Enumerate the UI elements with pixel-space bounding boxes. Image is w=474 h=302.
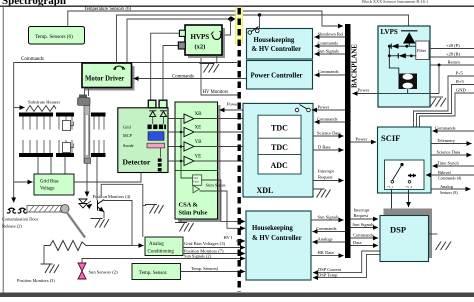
backplane bar bbox=[345, 24, 351, 258]
svg-text:Commands: Commands bbox=[316, 226, 337, 231]
CSA & stim pulse shadow bbox=[178, 105, 221, 222]
svg-text:Shutdown Rel: Shutdown Rel bbox=[318, 32, 344, 37]
svg-text:Power: Power bbox=[318, 105, 330, 110]
svg-text:Sun Signals: Sun Signals bbox=[353, 222, 375, 227]
svg-text:Request: Request bbox=[318, 175, 333, 180]
HK switch circles bbox=[248, 31, 252, 35]
DSP shadow bbox=[384, 209, 433, 259]
svg-text:R+5: R+5 bbox=[456, 79, 465, 84]
protection diode 1 bbox=[149, 111, 156, 117]
position monitor potentiometer zigzag bbox=[44, 241, 86, 251]
op-amp YB bbox=[184, 142, 194, 151]
svg-text:Request: Request bbox=[354, 213, 369, 218]
svg-text:Sun Sensors (2): Sun Sensors (2) bbox=[89, 270, 119, 275]
protection diode 2 bbox=[160, 111, 167, 117]
power controller box bbox=[247, 61, 313, 90]
svg-text:Grid Bias: Grid Bias bbox=[40, 180, 59, 185]
optical bench top bars bbox=[19, 113, 53, 117]
wire temp sensors to HK bbox=[181, 271, 246, 273]
housekeeping HV controller bottom box bbox=[246, 211, 311, 280]
wire sun signals (HK bottom to backplane) bbox=[311, 219, 344, 221]
wire arrow: to grid bias voltage box bbox=[14, 181, 33, 183]
wire: commands bus left bbox=[14, 63, 237, 200]
svg-text:Temp. Sensor.: Temp. Sensor. bbox=[139, 271, 167, 276]
TDC ADC white boxes bbox=[258, 115, 301, 174]
XDL box bbox=[243, 103, 313, 197]
svg-text:Commands: Commands bbox=[21, 57, 44, 62]
svg-text:TDC: TDC bbox=[271, 124, 288, 133]
svg-text:Release (2): Release (2) bbox=[2, 224, 22, 229]
wire: Temperature Sensors (6) from temp box to backplane arrow bbox=[68, 11, 343, 27]
svg-text:Stim Status: Stim Status bbox=[206, 183, 226, 188]
anode wire to feedthrough pins bbox=[160, 148, 162, 158]
svg-text:& HV Controller: & HV Controller bbox=[252, 235, 302, 242]
SCIF inner switch box bbox=[385, 160, 425, 190]
svg-text:Sun Signals (2): Sun Signals (2) bbox=[184, 254, 212, 259]
wire commands (power controller) bbox=[315, 74, 346, 76]
ground XDL bbox=[313, 188, 318, 190]
anode pink plate bbox=[147, 143, 165, 148]
svg-text:Sun Signals: Sun Signals bbox=[318, 49, 340, 54]
LVPS power output to backplane bbox=[353, 93, 440, 95]
svg-text:YB: YB bbox=[195, 140, 203, 145]
svg-text:Grid Bias Voltages (3): Grid Bias Voltages (3) bbox=[184, 241, 226, 246]
svg-text:Bilevel: Bilevel bbox=[438, 170, 451, 175]
lead screw nut bbox=[84, 158, 90, 164]
svg-text:CSA &: CSA & bbox=[179, 202, 199, 209]
pot left lead to ground bbox=[43, 246, 45, 264]
substrate heater resistor zigzag bbox=[26, 106, 56, 112]
emission arrows bbox=[88, 201, 93, 207]
wire telemetry out bbox=[431, 143, 472, 145]
detector box bbox=[118, 108, 168, 173]
svg-text:HVPS: HVPS bbox=[191, 33, 210, 41]
wire CSA internal rail bbox=[176, 170, 218, 172]
svg-text:XDL: XDL bbox=[257, 186, 274, 195]
wire +28 (R) bbox=[429, 56, 474, 58]
analog conditioning box bbox=[145, 237, 183, 256]
wire commands into XDL bbox=[315, 121, 346, 123]
power wire into CSA bbox=[220, 109, 296, 111]
svg-text:SCIF: SCIF bbox=[381, 133, 400, 143]
wire DSP current bbox=[313, 251, 380, 273]
svg-text:Temperature Sensors (6): Temperature Sensors (6) bbox=[84, 7, 131, 12]
wire grid bias output to detector bbox=[74, 173, 141, 183]
svg-text:+5_2: +5_2 bbox=[406, 185, 413, 189]
ground stub mid bbox=[143, 205, 146, 207]
lead screw shaft bbox=[84, 106, 90, 163]
junction dot power to HK switch bbox=[258, 13, 261, 16]
svg-text:Science Data: Science Data bbox=[437, 150, 461, 155]
ground mid bbox=[145, 205, 164, 214]
HV monitors wire bbox=[201, 58, 238, 96]
thermostat box upper bbox=[63, 121, 71, 131]
svg-text:Commands (4): Commands (4) bbox=[438, 177, 462, 181]
filter box bbox=[416, 41, 429, 60]
vacuum wall dashed bar bbox=[237, 8, 240, 292]
DSP box bbox=[380, 216, 429, 262]
svg-text:Data: Data bbox=[353, 240, 362, 245]
svg-text:Analog: Analog bbox=[149, 242, 164, 247]
position monitors collector wire bbox=[104, 200, 132, 246]
op-amp XE bbox=[184, 127, 194, 136]
lead screw sensing line with down arrow bbox=[86, 164, 88, 197]
svg-text:YE: YE bbox=[195, 155, 202, 160]
op-amp YE bbox=[184, 156, 194, 165]
motor leads bbox=[84, 88, 86, 97]
MCP blue stack bbox=[148, 132, 164, 141]
svg-text:+28 (R): +28 (R) bbox=[446, 52, 461, 57]
lead screw slot bbox=[85, 115, 88, 156]
transistor base from bench bbox=[96, 157, 98, 201]
svg-text:LVPS: LVPS bbox=[381, 28, 398, 36]
wire interrupt request to DSP bbox=[351, 218, 379, 220]
svg-text:Analog: Analog bbox=[440, 184, 454, 189]
svg-text:Commands: Commands bbox=[172, 75, 194, 80]
wire power into SCIF bbox=[351, 141, 377, 143]
phototransistor bbox=[98, 200, 105, 212]
optical bench bottom bars bbox=[19, 153, 53, 157]
svg-text:Detector: Detector bbox=[123, 158, 151, 167]
ground DSP bbox=[436, 242, 452, 251]
svg-text:DSP: DSP bbox=[390, 225, 406, 235]
switch dot bbox=[400, 163, 403, 166]
svg-text:+28 (P): +28 (P) bbox=[446, 43, 460, 48]
wire: HVPS 28V line with diamond at connector bbox=[127, 19, 227, 63]
svg-text:Filter: Filter bbox=[417, 48, 427, 53]
wire sun signals to HK bbox=[82, 259, 245, 264]
LVPS left bus to transformer bbox=[389, 46, 399, 73]
svg-text:Science Data: Science Data bbox=[317, 131, 341, 136]
svg-text:Commands: Commands bbox=[435, 126, 456, 131]
svg-text:Time Synch: Time Synch bbox=[437, 161, 459, 166]
svg-text:Block XXX Science Instrument B: Block XXX Science Instrument B-16-1 bbox=[362, 0, 428, 4]
wire: +28 power bus to LVPS and HK switch bbox=[117, 15, 409, 63]
wire commands to DSP bbox=[351, 237, 379, 239]
wire D rate bbox=[313, 149, 344, 151]
return junction dot bbox=[438, 64, 441, 67]
svg-text:Position Monitors (7): Position Monitors (7) bbox=[184, 249, 224, 254]
ground pot bbox=[41, 264, 60, 273]
svg-text:XB: XB bbox=[195, 112, 203, 117]
svg-text:Substrate Heaters: Substrate Heaters bbox=[28, 100, 60, 105]
detector to CSA input wires bbox=[168, 119, 184, 162]
wire +28 (P) bbox=[429, 48, 474, 50]
svg-text:HV I: HV I bbox=[224, 235, 233, 240]
HVPS curl symbol bbox=[212, 34, 220, 40]
svg-text:HV Monitors: HV Monitors bbox=[203, 90, 229, 95]
wire sun signals to DSP bbox=[351, 227, 379, 229]
return to power line bbox=[438, 65, 440, 94]
diode 2 bbox=[388, 54, 391, 57]
wire GND bbox=[420, 93, 474, 160]
svg-text:Sensors (8): Sensors (8) bbox=[440, 191, 458, 195]
wire: branch down to HK switch bbox=[259, 15, 261, 30]
LVPS box bbox=[378, 26, 430, 107]
wire commands into motor driver bbox=[134, 78, 247, 80]
svg-text:Power Controller: Power Controller bbox=[251, 72, 303, 80]
svg-text:Commands: Commands bbox=[353, 233, 374, 238]
svg-text:DSP Current: DSP Current bbox=[318, 267, 342, 272]
ground HVPS bbox=[200, 64, 220, 73]
wire into analog conditioning bbox=[132, 245, 144, 247]
svg-text:Housekeeping: Housekeeping bbox=[252, 225, 293, 232]
heater ticks above bottom bars bbox=[23, 140, 104, 153]
wire P+5 bbox=[414, 76, 474, 160]
svg-text:MCP: MCP bbox=[123, 133, 133, 138]
SCIF to DSP wires bbox=[391, 190, 393, 215]
double arrow bbox=[408, 175, 416, 177]
diode 1 bbox=[388, 45, 391, 48]
contamination door release hooks bbox=[7, 208, 16, 213]
housekeeping HV controller top box bbox=[247, 29, 313, 60]
svg-text:Temp. Sensors (6): Temp. Sensors (6) bbox=[35, 33, 73, 40]
grid bias voltage box bbox=[34, 174, 74, 195]
SCIF box bbox=[378, 127, 432, 193]
HVPS ground stub bbox=[216, 55, 218, 64]
HVPS box bbox=[185, 25, 222, 55]
svg-text:(x2): (x2) bbox=[195, 44, 206, 51]
XDL power switch bbox=[295, 108, 299, 112]
heater ticks below top bars bbox=[23, 117, 104, 130]
wire HV I bbox=[236, 240, 245, 242]
svg-text:+5_1: +5_1 bbox=[387, 185, 394, 189]
svg-text:D Rate: D Rate bbox=[318, 145, 331, 150]
svg-text:Motor Driver: Motor Driver bbox=[85, 76, 124, 83]
wire power to XDL switch bbox=[312, 109, 345, 111]
svg-text:Pulse: Pulse bbox=[193, 181, 199, 184]
wire commands into SCIF bbox=[433, 130, 474, 132]
svg-text:Voltage: Voltage bbox=[40, 187, 55, 192]
svg-text:& HV Controller: & HV Controller bbox=[252, 46, 302, 53]
transistor emitter to ground bbox=[103, 212, 105, 218]
svg-text:Contamination Door: Contamination Door bbox=[2, 217, 39, 222]
svg-text:DSP Temp: DSP Temp bbox=[318, 272, 338, 277]
ground LVPS bbox=[430, 96, 443, 98]
DSP ground wire bbox=[429, 233, 438, 235]
wire grid bias voltages (3) bbox=[183, 247, 245, 249]
wire position monitor upper route bbox=[101, 184, 143, 237]
svg-text:Interrupt: Interrupt bbox=[354, 208, 370, 213]
wire interrupt request bbox=[313, 180, 344, 182]
stim driver triangle bbox=[193, 185, 200, 193]
svg-text:Analogs: Analogs bbox=[318, 237, 333, 242]
HVPS connector tab 1 bbox=[179, 30, 185, 36]
svg-text:HK Data: HK Data bbox=[318, 250, 334, 255]
wire sun signals (HK top) bbox=[315, 53, 346, 55]
wire analogs bbox=[313, 241, 346, 243]
temp sensor box bottom bbox=[132, 264, 181, 280]
svg-text:GND: GND bbox=[456, 88, 466, 93]
svg-text:BACKPLANE: BACKPLANE bbox=[351, 44, 359, 88]
wire data to DSP bbox=[351, 245, 379, 247]
wire DSP temp bbox=[313, 254, 380, 277]
svg-text:Return: Return bbox=[448, 60, 461, 65]
wire shutdown relays bbox=[315, 36, 346, 38]
svg-text:Power: Power bbox=[356, 137, 368, 142]
LVPS input diode (big) bbox=[401, 30, 418, 32]
optocoupler LED pair bbox=[79, 199, 87, 208]
feedthrough pins bbox=[158, 158, 162, 161]
svg-text:Grid: Grid bbox=[123, 125, 132, 130]
stim trigger wire bbox=[200, 191, 246, 228]
svg-text:Conditioning: Conditioning bbox=[148, 250, 175, 255]
op-amp XB bbox=[184, 114, 194, 123]
wire return bbox=[431, 64, 474, 66]
svg-text:XE: XE bbox=[195, 126, 202, 131]
wires from bench to grid bias box bbox=[38, 157, 65, 174]
stim status wire bbox=[202, 180, 245, 221]
HVPS wires to detector connectors bbox=[151, 33, 180, 100]
stim injection bus bbox=[181, 119, 193, 179]
HVPS connector tab 2 (gray) bbox=[178, 42, 185, 49]
svg-text:Anode: Anode bbox=[123, 143, 134, 148]
svg-text:Commands: Commands bbox=[318, 69, 339, 74]
motor cylinder bbox=[79, 95, 87, 99]
svg-text:Commands: Commands bbox=[318, 41, 339, 46]
door arm diagonal rod bbox=[67, 212, 86, 238]
svg-text:Interrupt: Interrupt bbox=[318, 169, 334, 174]
door pivot circle bbox=[61, 205, 69, 213]
temp sensors box (6) bbox=[29, 27, 85, 45]
motor driver shadow bbox=[85, 66, 135, 91]
frame left border bbox=[2, 6, 4, 293]
svg-text:Position Monitors (3): Position Monitors (3) bbox=[17, 278, 55, 283]
wire arrow: to substrate heaters bbox=[14, 107, 25, 109]
wire position monitors (7) bbox=[183, 253, 245, 255]
wire science data out bbox=[431, 154, 472, 156]
wire time synch in bbox=[433, 165, 474, 167]
switch blade bbox=[392, 165, 402, 181]
grid electrode squares bbox=[148, 125, 152, 130]
wire HK data bbox=[311, 255, 344, 257]
svg-text:TDC: TDC bbox=[271, 143, 288, 152]
svg-text:Sun Signals: Sun Signals bbox=[318, 215, 340, 220]
stim pulse generator box bbox=[193, 175, 202, 185]
wire R+5 bbox=[417, 85, 474, 161]
pot right lead bbox=[86, 245, 132, 247]
thermostat box lower bbox=[63, 143, 71, 153]
svg-text:Temp. Sensors): Temp. Sensors) bbox=[191, 266, 219, 271]
arrow down to contamination door bbox=[13, 196, 15, 203]
CSA & stim pulse box bbox=[175, 102, 218, 219]
svg-text:Power: Power bbox=[227, 102, 239, 107]
wire science data bbox=[313, 135, 344, 137]
CSA outputs to TDC/ADC bbox=[194, 118, 258, 120]
yellow connector bar bbox=[236, 7, 243, 44]
wire analog sensors out bbox=[431, 188, 471, 190]
wire commands (HK bottom) bbox=[313, 231, 346, 233]
frame top line bbox=[0, 5, 474, 7]
svg-text:Power: Power bbox=[358, 88, 370, 93]
svg-text:Commands: Commands bbox=[317, 117, 338, 122]
wire: HVPS right side up to diamond bbox=[223, 19, 231, 35]
svg-text:Stim Pulse: Stim Pulse bbox=[179, 210, 208, 217]
transformer bbox=[399, 74, 418, 90]
svg-text:Position Monitors (4): Position Monitors (4) bbox=[93, 194, 131, 199]
sun sensor bowtie bbox=[78, 263, 86, 279]
motor driver box bbox=[82, 63, 132, 88]
motor symbol curl on motor driver bbox=[115, 66, 123, 70]
ground CSA bbox=[180, 219, 182, 222]
wire bilevel commands in bbox=[426, 174, 474, 176]
svg-text:Telemetry: Telemetry bbox=[437, 138, 456, 143]
HVPS shadow bbox=[188, 28, 225, 58]
svg-text:Housekeeping: Housekeeping bbox=[254, 37, 295, 44]
svg-text:P+5: P+5 bbox=[456, 71, 464, 76]
diamond arrowhead at connector bbox=[227, 16, 236, 22]
door actuator hatched rod bbox=[27, 206, 63, 213]
wire commands (HK top) bbox=[315, 45, 346, 47]
svg-text:ADC: ADC bbox=[271, 161, 289, 170]
HV connector squares on detector bbox=[148, 100, 156, 108]
ground transistor bbox=[91, 219, 110, 228]
frame bottom thick bar bbox=[0, 293, 474, 298]
